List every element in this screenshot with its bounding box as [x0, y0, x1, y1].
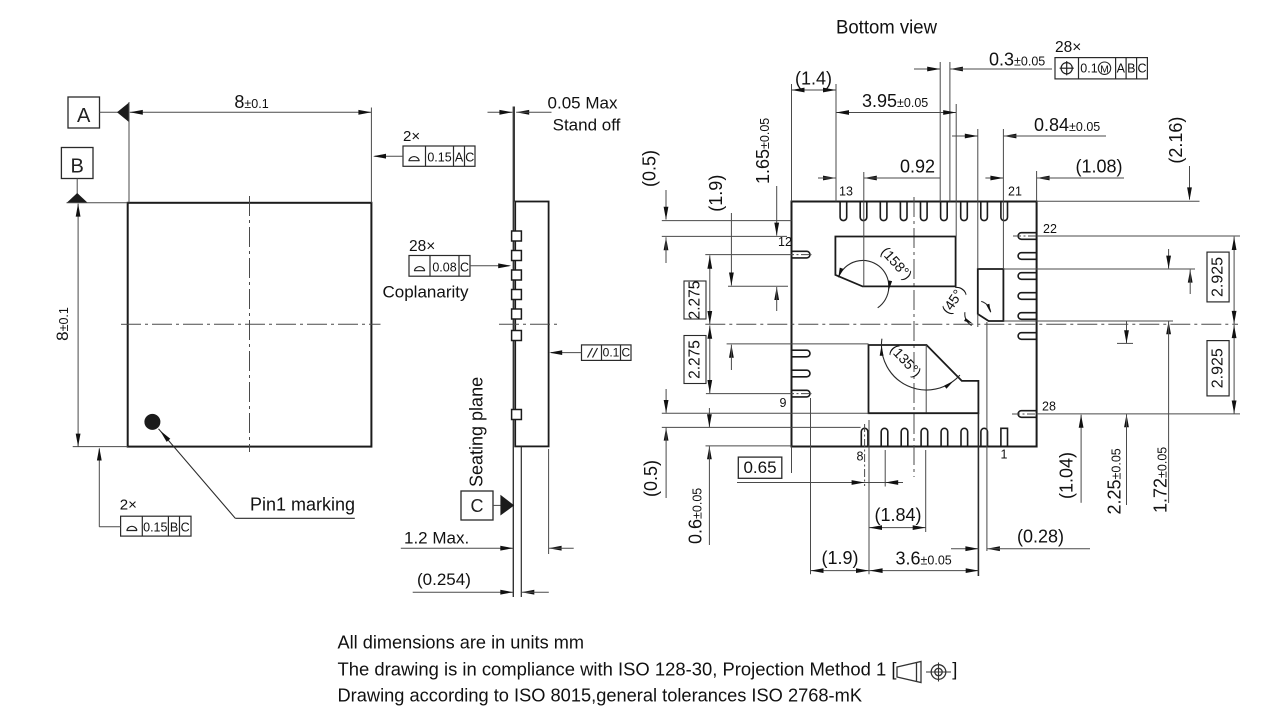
lower pad right edge extension: [977, 413, 979, 576]
top view: package body outline: [128, 203, 372, 447]
dimension (1.9) left: [730, 213, 732, 286]
svg-text:21: 21: [1008, 185, 1022, 199]
svg-text:28×: 28×: [409, 238, 435, 255]
ext line pad left edge down: [868, 420, 870, 574]
pin 28 center line: [1012, 413, 1037, 415]
leader from frame to bottom edge: [99, 526, 120, 528]
dimension 0.65 (boxed, pitch): [738, 457, 782, 478]
svg-text:(1.9): (1.9): [821, 548, 858, 568]
datum A symbol: [68, 97, 100, 128]
projection method symbol: circles: [931, 665, 946, 680]
upper exposed pad: [835, 237, 955, 287]
pin 8 center line: [864, 424, 866, 486]
dimension (0.254): [413, 591, 513, 593]
svg-text:0.1: 0.1: [1080, 62, 1097, 76]
pin1 marking leader: [159, 429, 236, 519]
svg-text:A: A: [1117, 62, 1126, 76]
svg-text:12: 12: [778, 235, 792, 249]
dimension (0.28): [951, 548, 979, 550]
svg-text:28×: 28×: [1055, 39, 1081, 56]
svg-text:(1.4): (1.4): [795, 69, 832, 89]
dimension 1.2 Max: [401, 547, 514, 549]
angle reference line through lower chamfer vertex: [925, 345, 927, 413]
dimension (1.04): [1080, 415, 1082, 503]
svg-text:C: C: [460, 261, 469, 275]
svg-text:Coplanarity: Coplanarity: [383, 283, 469, 302]
svg-text:22: 22: [1043, 222, 1057, 236]
ref line bottom pins top ext y=427.4: [662, 426, 861, 428]
svg-text:2×: 2×: [403, 128, 420, 145]
ref line pin28 center ext right: [1037, 413, 1240, 415]
ref line pin9 center ext: [706, 393, 786, 395]
svg-text:(1.08): (1.08): [1075, 157, 1122, 177]
svg-text:1: 1: [1001, 448, 1008, 462]
side view: lead squares: [512, 231, 522, 241]
pin 9 center line: [786, 393, 812, 395]
ref line lower pad bottom ext y=413.2: [662, 412, 869, 414]
pin 1 (square identifier): [1001, 428, 1008, 446]
svg-text:(0.5): (0.5): [640, 150, 660, 187]
pin1 marking dot: [144, 414, 160, 430]
svg-text:The drawing is in compliance w: The drawing is in compliance with ISO 12…: [338, 659, 897, 680]
side view: seating plane line (with stand-off ext merged above body): [513, 107, 515, 202]
svg-text:2.925: 2.925: [1210, 257, 1227, 297]
ext lines above package: [791, 84, 793, 202]
dimension (1.84): [869, 527, 926, 529]
dimension 1.72±0.05: [1168, 249, 1170, 268]
svg-text:(1.04): (1.04): [1057, 452, 1077, 499]
ref line pin22 center ext right: [1037, 235, 1240, 237]
bottom row pins 8-1: [861, 428, 868, 446]
svg-text:2.275: 2.275: [687, 340, 704, 379]
ext line pin7 center down: [884, 450, 886, 487]
svg-text:9: 9: [780, 396, 787, 410]
svg-text:A: A: [455, 151, 464, 165]
pin 12 center line: [786, 254, 812, 256]
dimension 8±0.1 horizontal (top): [128, 102, 130, 203]
dimension 0.05 Max stand off: [488, 111, 513, 113]
svg-text:]: ]: [952, 659, 957, 680]
ref line pin12 center ext: [705, 254, 786, 256]
ref line upper pad top ext y=236.4: [662, 235, 787, 237]
datum B symbol: [61, 148, 93, 179]
svg-text:Seating plane: Seating plane: [467, 377, 487, 487]
datum C symbol: [461, 491, 493, 520]
svg-text:0.15: 0.15: [427, 151, 451, 165]
svg-text:C: C: [181, 521, 190, 535]
svg-text:0.05 Max: 0.05 Max: [548, 94, 618, 113]
package left edge overshoot below corner: [791, 447, 793, 474]
svg-text:(0.28): (0.28): [1017, 527, 1064, 547]
ext line left pins right end down: [810, 398, 812, 574]
side view: package body profile: [515, 202, 548, 447]
angle arc 158 deg: [839, 260, 889, 307]
svg-text:C: C: [621, 346, 630, 360]
svg-text:(0.254): (0.254): [417, 570, 471, 589]
angle arc 45 deg: [981, 301, 991, 312]
svg-text:0.15: 0.15: [143, 521, 167, 535]
dimension 0.3±0.05: [914, 68, 940, 70]
svg-text:M: M: [1100, 63, 1109, 75]
angle reference extension below 45 vertex: [977, 314, 979, 327]
svg-text:(1.9): (1.9): [706, 175, 726, 212]
svg-text:(1.84): (1.84): [874, 505, 921, 525]
ref line upper pad bottom ext y=286.3: [728, 285, 788, 287]
dimension (1.08): [985, 177, 1003, 179]
lower exposed pad: [869, 345, 979, 413]
svg-text:C: C: [1137, 62, 1146, 76]
svg-text:Pin1 marking: Pin1 marking: [250, 495, 355, 515]
pin 22 center line: [1013, 235, 1037, 237]
parallelism frame // 0.1 C: [582, 345, 632, 361]
svg-text:2×: 2×: [120, 497, 137, 514]
svg-text:(2.16): (2.16): [1166, 117, 1186, 164]
svg-text:0.65: 0.65: [743, 458, 776, 477]
svg-text:(0.5): (0.5): [641, 460, 661, 497]
dimension 2.275 lower (boxed): [709, 325, 711, 393]
bottom view vertical center line: [913, 197, 915, 477]
dimension 3.6±0.05: [869, 570, 979, 572]
svg-text:0.08: 0.08: [432, 261, 456, 275]
ref line pins-top-bottom y=220.6: [662, 220, 792, 222]
dimension (2.16): [1189, 166, 1191, 200]
svg-text:0.92: 0.92: [900, 157, 935, 177]
dimension 2.925 upper (boxed): [1233, 237, 1235, 325]
svg-text:All dimensions are in units mm: All dimensions are in units mm: [338, 632, 585, 653]
svg-text:Bottom view: Bottom view: [836, 18, 937, 39]
svg-text:0.1: 0.1: [603, 346, 620, 360]
svg-text:B: B: [1127, 62, 1135, 76]
side view: lead line below body: [520, 446, 522, 597]
svg-text:Stand off: Stand off: [553, 116, 621, 135]
svg-text:8: 8: [857, 450, 864, 464]
ext line pin4 center down: [925, 450, 927, 532]
dimension 1.65±0.05: [776, 186, 778, 236]
ref line right pad top ext: [1003, 268, 1195, 270]
dimension (0.5) top left: [665, 190, 667, 220]
dimension 8±0.1 vertical (left): [67, 202, 128, 204]
svg-text:28: 28: [1042, 400, 1056, 414]
dimension (0.5) bottom left: [665, 389, 667, 413]
svg-text:13: 13: [839, 185, 853, 199]
svg-text:B: B: [71, 156, 84, 178]
right pins 22-28: [1018, 233, 1037, 240]
angle arc 135 deg: [881, 339, 959, 390]
side view center line: [499, 323, 559, 325]
right middle pad: [978, 269, 1004, 321]
ext line (0.28) right: [986, 322, 988, 551]
dimension 2.275 upper (boxed): [709, 255, 711, 324]
ref line right pad bottom ext: [1003, 320, 1173, 322]
svg-text:1.2 Max.: 1.2 Max.: [404, 529, 469, 548]
bottom view horizontal center line: [705, 323, 1238, 325]
ref stub for 2.25 top: [1117, 342, 1133, 344]
dimension 0.84±0.05: [952, 135, 978, 137]
svg-text:C: C: [471, 496, 484, 516]
ref line bottom edge ext y=445.9: [706, 445, 792, 447]
top view horizontal center line: [121, 323, 381, 325]
svg-text:Drawing according to ISO 8015,: Drawing according to ISO 8015,general to…: [338, 685, 863, 706]
dimension 0.6±0.05: [708, 408, 710, 427]
dimension (1.9) bottom: [811, 570, 870, 572]
left pins 12,11,10,9: [792, 251, 810, 258]
dimension 3.95±0.05: [836, 112, 956, 114]
ref line lower pad top ext y=343.9: [727, 343, 869, 345]
bottom view: package outline: [792, 202, 1037, 447]
svg-text:B: B: [170, 521, 178, 535]
ref line top edge ext right: [1037, 200, 1200, 202]
projection method symbol: frustum: [897, 662, 921, 683]
dimension 2.925 lower (boxed): [1233, 325, 1235, 414]
svg-text:A: A: [77, 105, 91, 127]
svg-text:C: C: [465, 151, 474, 165]
top row pins 13-21: [840, 202, 847, 221]
dimension 2.25±0.05: [1126, 321, 1128, 343]
dimension (1.4): [792, 89, 837, 91]
dimension 0.92: [823, 176, 836, 181]
top view vertical center line: [249, 196, 251, 452]
svg-text:2.275: 2.275: [687, 281, 704, 320]
svg-text:2.925: 2.925: [1210, 348, 1227, 388]
